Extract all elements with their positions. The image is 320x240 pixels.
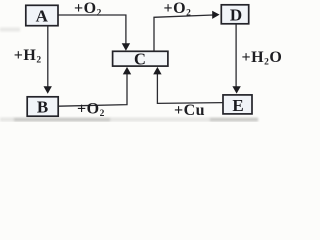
- box D: [221, 5, 248, 24]
- wire D to E (down): [235, 24, 237, 89]
- arrowhead into C bottom left: [123, 67, 131, 75]
- bottom smudge darker left: [14, 118, 110, 121]
- svg-text:+Cu: +Cu: [174, 102, 205, 119]
- wire C to D (up then right): [154, 15, 213, 51]
- arrowhead into B top: [44, 86, 52, 94]
- svg-text:C: C: [134, 49, 146, 68]
- svg-text:A: A: [36, 6, 49, 25]
- arrowhead into D left: [212, 11, 219, 19]
- svg-text:E: E: [232, 96, 243, 115]
- bottom smudge under E: [210, 118, 258, 121]
- arrowhead into C top: [122, 43, 130, 51]
- box B: [27, 97, 58, 116]
- svg-text:+H2O: +H2O: [242, 49, 283, 68]
- wire E to C (left then up): [157, 70, 222, 104]
- arrowhead into C bottom right: [153, 67, 161, 75]
- wire A to C (right then down): [58, 15, 126, 48]
- wire A to B (down): [47, 26, 49, 89]
- bottom scan smudge band: [0, 118, 258, 122]
- faint smudge left of A bottom: [0, 28, 20, 32]
- box A: [26, 5, 58, 25]
- arrowhead into E top: [232, 86, 240, 93]
- svg-text:D: D: [230, 5, 242, 24]
- wire B to C (right then up): [59, 70, 128, 106]
- box C: [113, 51, 168, 66]
- box E: [223, 95, 252, 114]
- svg-text:B: B: [37, 97, 48, 116]
